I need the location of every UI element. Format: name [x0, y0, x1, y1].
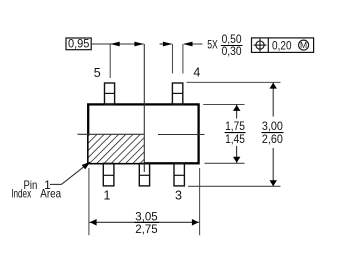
pin 3 (bottom right) [174, 163, 184, 186]
dimension 0,95 line and arrows [91, 42, 144, 47]
pin 1 index area hatch [89, 134, 145, 163]
svg-text:0,95: 0,95 [68, 38, 90, 50]
pin 5 number label [94, 66, 101, 80]
label 5X [207, 39, 218, 51]
dimension 3,00/2,60 line and arrows [270, 83, 277, 187]
svg-text:M: M [300, 40, 307, 50]
pin 2 (bottom middle) [139, 163, 149, 186]
horizontal center line [78, 133, 205, 135]
pin 4 number label [193, 66, 200, 80]
svg-text:3: 3 [175, 189, 182, 203]
svg-text:4: 4 [193, 66, 200, 80]
fraction 1,75 over 1,45 [225, 121, 246, 146]
label Pin 1 Index Area [11, 178, 61, 201]
dimension 5X 0,50/0,30 arrows [160, 42, 203, 47]
fraction 3,00 over 2,60 [261, 121, 283, 146]
svg-text:Area: Area [40, 187, 61, 201]
extension lines lead tips (for 3,00/2,60) [187, 82, 281, 186]
svg-text:5X: 5X [207, 39, 218, 51]
feature control frame: position 0,20 M [252, 38, 314, 53]
svg-text:2,60: 2,60 [262, 134, 283, 146]
pin 1 number label [104, 189, 111, 203]
svg-text:Index: Index [11, 187, 31, 201]
dimension 1,75/1,45 line and arrows [233, 104, 240, 163]
svg-text:0,20: 0,20 [272, 40, 292, 52]
dimension 3,05/2,75 line and arrows [89, 219, 198, 226]
svg-text:3,05: 3,05 [135, 212, 157, 224]
fraction 0,50 over 0,30 [221, 34, 243, 58]
pin 3 number label [175, 189, 182, 203]
pin 1 index area leader line and arrow [50, 162, 91, 185]
svg-text:1,75: 1,75 [225, 121, 245, 133]
extension line pin 5 center [109, 44, 111, 78]
pin 1 (bottom left) [103, 163, 114, 186]
extension lines body top/bottom (for 1,75/1,45) [203, 105, 244, 164]
pin 4 (top right) [172, 83, 182, 105]
svg-text:2,75: 2,75 [135, 224, 157, 236]
svg-text:1,45: 1,45 [225, 134, 245, 146]
svg-text:3,00: 3,00 [262, 121, 283, 133]
fraction 3,05 over 2,75 [134, 212, 159, 236]
svg-text:5: 5 [94, 66, 101, 80]
vertical center line [143, 44, 145, 172]
svg-text:0,30: 0,30 [222, 46, 242, 58]
dimension 0,95 basic box [66, 38, 91, 50]
extension lines pin 4 edges [173, 44, 183, 74]
package body outline [88, 104, 198, 163]
extension lines body left/right (for 3,05/2,75) [89, 168, 200, 235]
svg-text:1: 1 [104, 189, 111, 203]
svg-text:0,50: 0,50 [222, 34, 242, 46]
pin 5 (top left) [105, 83, 115, 105]
